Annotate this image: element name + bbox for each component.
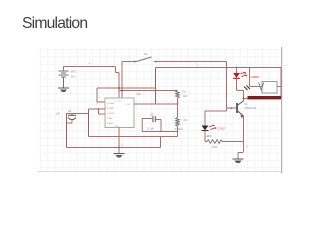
svg-text:S1: S1 [144,52,148,56]
wire switch contact drop [121,62,123,99]
wire C1 drop [66,114,68,148]
wire trig row [89,108,106,110]
IC 555 timer U1 [105,92,141,128]
wire ground rail B [67,147,161,149]
wire reset pin [97,88,105,102]
svg-text:VCC RST: VCC RST [114,101,124,103]
wire LED D1 cathode to collector [237,78,244,98]
svg-text:5 CON: 5 CON [107,113,114,115]
emission marks near collector [244,86,250,91]
switch S1 [134,52,157,63]
svg-text:R2: R2 [184,118,188,122]
svg-text:2 TRIG: 2 TRIG [107,103,114,105]
svg-text:R1: R1 [183,90,187,94]
wire buzzer left drop [249,68,251,87]
svg-text:C2: C2 [150,112,154,116]
capacitor C1 [56,109,77,123]
wire left drop to rail A [88,109,90,137]
wire R3 to emitter node [223,141,244,143]
wire buzzer left lead [250,86,262,88]
window right border [281,47,283,173]
wire to switch [122,61,134,63]
wire IC GND pin drop [118,128,120,154]
LED LED1 green [202,124,227,137]
capacitor C2 [147,112,155,130]
wire OUT pin row [134,103,178,105]
svg-text:9V: 9V [71,75,75,79]
buzzer base dark bar [248,96,282,99]
buzzer LS1 [259,82,278,94]
wire trunk to LED1 and Q1 base [226,62,228,112]
wire switch output rail [157,61,227,63]
svg-text:C1: C1 [68,109,72,113]
resistor R1 [176,90,188,105]
junction dot R1 bottom [177,103,179,105]
wire trunk to LED1 branch [205,111,227,126]
svg-text:1kΩ: 1kΩ [212,145,217,149]
ground under Q1 emitter [233,159,244,163]
svg-text:1uF: 1uF [56,111,61,115]
wire rail to R junction drop [155,68,157,105]
svg-text:U1: U1 [137,92,141,96]
svg-text:OUT: OUT [126,104,131,106]
wire collector up [243,99,245,102]
junction dots H rows [118,87,120,89]
wire rail A [89,136,178,138]
svg-text:Q1: Q1 [244,102,248,106]
svg-text:TO92AJ-R: TO92AJ-R [244,106,256,110]
wire rail A to ground rail [160,137,162,148]
transistor Q1 [227,101,257,118]
wire LED1 to R3 [205,131,207,142]
junction dot collector node [243,98,245,100]
wire emitter to ground jog [238,153,244,159]
wire H1 VCC row [97,87,156,89]
ground under IC [114,154,125,158]
junction dot gnd rail [118,147,120,149]
svg-text:440kΩ: 440kΩ [175,127,183,131]
junction dot trig [98,108,100,110]
wire bottom collector rail [244,98,282,100]
LED D1 red [233,68,247,79]
resistor R3 [207,140,223,149]
svg-text:J-9808: J-9808 [250,75,259,79]
svg-text:C-5017: C-5017 [218,128,227,131]
svg-text:GND: GND [114,126,119,128]
svg-text:BT1: BT1 [71,69,77,73]
svg-text:7 DIS: 7 DIS [107,118,113,120]
wire C1 top [67,113,89,115]
wire H2 to R1 [119,90,178,92]
svg-text:6 THR: 6 THR [107,108,114,110]
wire right drop to buzzer [280,68,282,99]
wire lower rail [156,67,282,69]
wire battery top rail [64,67,120,73]
svg-text:4 RST: 4 RST [107,123,114,125]
wire buzzer right lead [277,86,281,88]
grid of schematic capture area [39,48,280,171]
resistor R2 [175,104,188,137]
window bottom edge [38,171,281,173]
ground under battery [58,88,69,92]
wire emitter down [243,116,245,152]
battery BT1 [59,67,77,88]
svg-text:0.1uF: 0.1uF [147,127,154,131]
wire VCC pin drop [118,73,120,99]
capacitor C2 loop wires [142,119,177,132]
svg-text:LED1: LED1 [205,135,212,138]
svg-text:1kΩ: 1kΩ [183,94,188,98]
wire trig-thr tie [99,109,106,114]
